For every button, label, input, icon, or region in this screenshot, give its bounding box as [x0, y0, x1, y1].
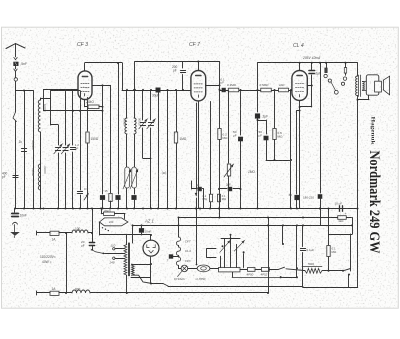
tuning capacitor C2 — [61, 91, 70, 209]
wire CL4 anode top — [258, 62, 358, 71]
power transformer secondary — [132, 263, 153, 275]
speaker — [362, 75, 389, 95]
band switch cluster — [207, 234, 245, 268]
capacitor 0.1uF right — [300, 225, 314, 286]
wire vertical x24 — [23, 90, 25, 209]
wire vertical x110 — [105, 85, 113, 208]
resistor 1k bus2 — [338, 216, 347, 224]
junction dots bus3 — [141, 224, 354, 226]
antenna-earth switch — [13, 91, 17, 209]
capacitor 50uF — [233, 90, 243, 209]
wire vertical x291 — [290, 89, 292, 209]
electrolytic 30uF — [289, 193, 300, 209]
capacitor 50uF cathode — [259, 120, 269, 160]
rectifier tube AZ1 — [143, 240, 159, 256]
wire CF7 cathode down — [198, 101, 200, 209]
junction dots on chain — [240, 89, 276, 91]
wire CF7 anode — [197, 61, 199, 71]
resistor 50 ohm tone — [302, 262, 343, 273]
band switch section b — [130, 167, 138, 209]
wire CL4 cathode — [299, 101, 301, 209]
capacitor 10nF chassis — [12, 209, 19, 217]
capacitor 5uF cathode stub — [192, 181, 204, 209]
wire vertical x102.5 — [100, 85, 105, 208]
resistor 0.1M tone — [327, 246, 337, 257]
junction dots bus2 — [267, 217, 304, 219]
potentiometer 1M volume — [224, 90, 255, 209]
wire CF3 anode to top — [85, 63, 123, 71]
wire CL4 grid entry — [289, 90, 292, 92]
coil L2 — [38, 164, 47, 190]
wire AZ1 cathode down — [150, 256, 152, 284]
earth ground symbol — [10, 232, 20, 238]
capacitor 0.1uF coupling — [220, 78, 226, 92]
fuse F2 1A — [44, 287, 66, 296]
wire link y98 — [41, 98, 51, 100]
connector chevron — [14, 57, 17, 59]
capacitor 10uF bus — [335, 202, 347, 216]
resistor 4P52 — [255, 268, 269, 277]
scale lamp — [188, 265, 219, 281]
wire AZ1 anode top — [150, 235, 152, 240]
capacitor heater bypass — [167, 255, 180, 263]
capacitor 20uF mains — [81, 208, 95, 250]
wire CF3 cathode — [84, 100, 86, 107]
wire transformer bottom — [132, 275, 304, 286]
resistor 20k bus — [100, 208, 125, 219]
capacitor 2uF screen stub — [218, 183, 242, 191]
bus chassis ground y208 — [15, 208, 358, 210]
capacitor 1k coupling — [19, 140, 27, 152]
wire vertical x33 — [31, 91, 35, 209]
tube CL4 — [292, 43, 307, 101]
phone jack 2 — [341, 62, 346, 86]
band switch section a — [123, 167, 131, 209]
wire top x122 drop — [122, 63, 124, 90]
resistor 0.2M screen — [218, 62, 228, 219]
wire vertical x210 — [210, 102, 212, 209]
electrolytic cathode branch — [297, 111, 300, 195]
wire vertical x80 — [77, 91, 82, 209]
capacitor 400pF antenna shunt — [2, 172, 18, 180]
wire grid line y90 — [122, 90, 191, 92]
resistor 1k grid — [279, 83, 289, 92]
wire dial cord left stub — [131, 277, 150, 279]
coil L1 antenna — [38, 98, 47, 209]
mains lower line — [37, 291, 45, 295]
antenna — [6, 44, 25, 57]
capacitor trimmer — [70, 91, 79, 209]
wire long HT vertical right — [357, 96, 359, 288]
barretter 100 ohm — [65, 227, 92, 234]
padder capacitor C4 — [147, 89, 156, 209]
wire grid stopper down x196 — [195, 103, 198, 209]
resistor 0.2M small — [203, 194, 213, 202]
wire vertical x118 — [116, 62, 121, 209]
aerial coupling arc symbol — [12, 222, 17, 232]
wire primary bottom to mains — [126, 275, 128, 294]
resistor 150 Ohm — [86, 98, 99, 209]
wire bottom right — [303, 286, 358, 288]
wire vertical x297 — [296, 225, 298, 277]
resistor 1M grid leak — [174, 89, 187, 209]
mains label — [40, 255, 56, 264]
wire CF7 screen right — [206, 84, 221, 86]
switch contact — [84, 187, 89, 200]
electrolytic 2uF — [255, 63, 268, 209]
padder capacitor C3 — [139, 89, 151, 159]
wire vertical x167 — [162, 89, 169, 209]
wire top y91 — [51, 90, 81, 92]
voltage selector plug — [99, 218, 128, 231]
phone jack 1 — [324, 62, 338, 94]
primary taps — [105, 243, 125, 264]
wire link y120 — [257, 119, 267, 121]
bus B+ y217 — [179, 217, 352, 219]
resistor 0.5M — [273, 90, 283, 160]
resistor 0.1M small — [218, 194, 227, 202]
wire and switch after 4P52 — [269, 267, 303, 270]
connector chevron 2 — [14, 69, 17, 71]
wire y89.5 chain — [226, 90, 292, 92]
output transformer T2 — [356, 63, 365, 97]
ballast resistor — [219, 268, 241, 272]
tube CF3 — [77, 42, 92, 100]
tone switch — [342, 269, 351, 288]
wire vertical x320 — [318, 62, 322, 226]
wire x196 to lamp line — [196, 209, 197, 266]
bus heater y225 — [132, 224, 352, 243]
resistor 4P50 — [240, 268, 255, 277]
tube CF7 — [189, 42, 206, 101]
power transformer T1 core — [129, 243, 130, 276]
switch stub x283 — [282, 225, 284, 245]
junction dots bus1 — [14, 208, 359, 210]
capacitor 30uF — [152, 88, 160, 209]
coil IF1b — [133, 89, 142, 167]
mains plug upper — [37, 231, 45, 235]
wire CF3 screen right — [92, 84, 111, 86]
selector switch arm — [91, 249, 104, 254]
tone network box — [328, 208, 351, 272]
dial pointer arrow — [232, 272, 298, 279]
wire top link y90 — [16, 90, 34, 92]
wire speaker return — [357, 95, 370, 101]
tuning capacitor C1 — [54, 144, 63, 209]
wire CF3 grid left — [44, 90, 104, 112]
capacitor 200pF — [172, 62, 186, 92]
switch wire x66 — [66, 233, 68, 293]
dial lamp — [174, 265, 188, 281]
fuse F1 1A — [44, 231, 66, 241]
wire vertical x50 jog — [51, 91, 59, 145]
wire bus2 end down — [350, 218, 353, 235]
wire vertical x268 psu — [267, 218, 269, 295]
power transformer primary — [124, 235, 127, 275]
capacitor 10nF AZ1 — [139, 225, 151, 235]
resistor 20k cathode — [85, 100, 104, 108]
capacitor 2uF anode-cathode — [300, 62, 322, 107]
wire link y160 to x291 — [266, 159, 292, 161]
heater chain resistor — [176, 217, 191, 267]
capacitor 5nF antenna series — [14, 62, 27, 66]
barretter 800 — [65, 287, 268, 294]
resistor 0.3M — [227, 83, 239, 92]
wire antenna down — [15, 66, 17, 69]
wire top y61 — [134, 62, 220, 92]
wire selector feed — [99, 222, 152, 236]
antenna plug connector — [14, 78, 17, 81]
resistor 0.5M — [260, 83, 272, 92]
coil IF1a — [122, 89, 128, 167]
